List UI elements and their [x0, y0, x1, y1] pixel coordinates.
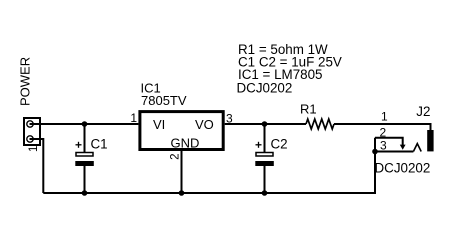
resistor R1	[306, 119, 334, 129]
wire IC1 GND pin down to ground rail	[181, 151, 183, 193]
capacitor C1	[75, 142, 94, 166]
node junction C1 bottom	[82, 190, 88, 196]
svg-text:2: 2	[169, 153, 181, 159]
jack sleeve contact caret	[413, 144, 421, 152]
svg-text:7805TV: 7805TV	[141, 93, 187, 108]
node junction C2 bottom	[262, 190, 268, 196]
svg-text:C2: C2	[271, 137, 288, 152]
connector J2 DC jack	[375, 130, 434, 152]
connector POWER	[24, 118, 40, 145]
svg-text:C1: C1	[91, 137, 108, 152]
wire top rail from POWER pin 2 to IC1 pin VI	[30, 123, 139, 125]
node junction C1 top	[82, 121, 88, 127]
svg-text:DCJ0202: DCJ0202	[375, 161, 431, 176]
jack switch pin 2 wire	[375, 138, 403, 146]
svg-text:1: 1	[130, 111, 137, 125]
svg-text:GND: GND	[171, 136, 200, 151]
node junction IC1 GND bottom	[179, 190, 185, 196]
svg-text:2: 2	[380, 126, 387, 140]
svg-text:VO: VO	[195, 117, 214, 132]
capacitor C2	[255, 142, 273, 166]
node junction C2 top	[262, 121, 268, 127]
svg-text:1: 1	[381, 109, 388, 123]
wire C2 top lead	[264, 124, 266, 153]
svg-text:3: 3	[380, 138, 387, 152]
svg-text:DCJ0202: DCJ0202	[237, 80, 293, 95]
svg-text:1: 1	[28, 146, 40, 152]
svg-text:R1: R1	[300, 102, 317, 117]
annotation text block	[237, 42, 342, 95]
wire from IC1 VO pin to resistor R1	[225, 123, 306, 125]
jack sleeve bar	[427, 130, 433, 151]
svg-text:POWER: POWER	[18, 57, 33, 106]
wire C1 top lead	[84, 124, 86, 153]
wire C1 bottom lead	[84, 165, 86, 193]
node junction J2 pin 3	[372, 149, 378, 155]
wire from resistor R1 to jack J2 pin 1	[334, 124, 431, 131]
IC1 regulator box (7805)	[140, 112, 223, 150]
jack switch arrow	[400, 145, 406, 150]
svg-text:J2: J2	[416, 104, 430, 119]
wire POWER pin 1 down to ground rail	[30, 139, 44, 193]
svg-text:3: 3	[226, 112, 233, 126]
wire ground rail bottom	[43, 138, 375, 193]
wire C2 bottom lead	[264, 165, 266, 193]
jack pin 3 wire	[375, 151, 413, 153]
svg-text:VI: VI	[153, 117, 165, 132]
